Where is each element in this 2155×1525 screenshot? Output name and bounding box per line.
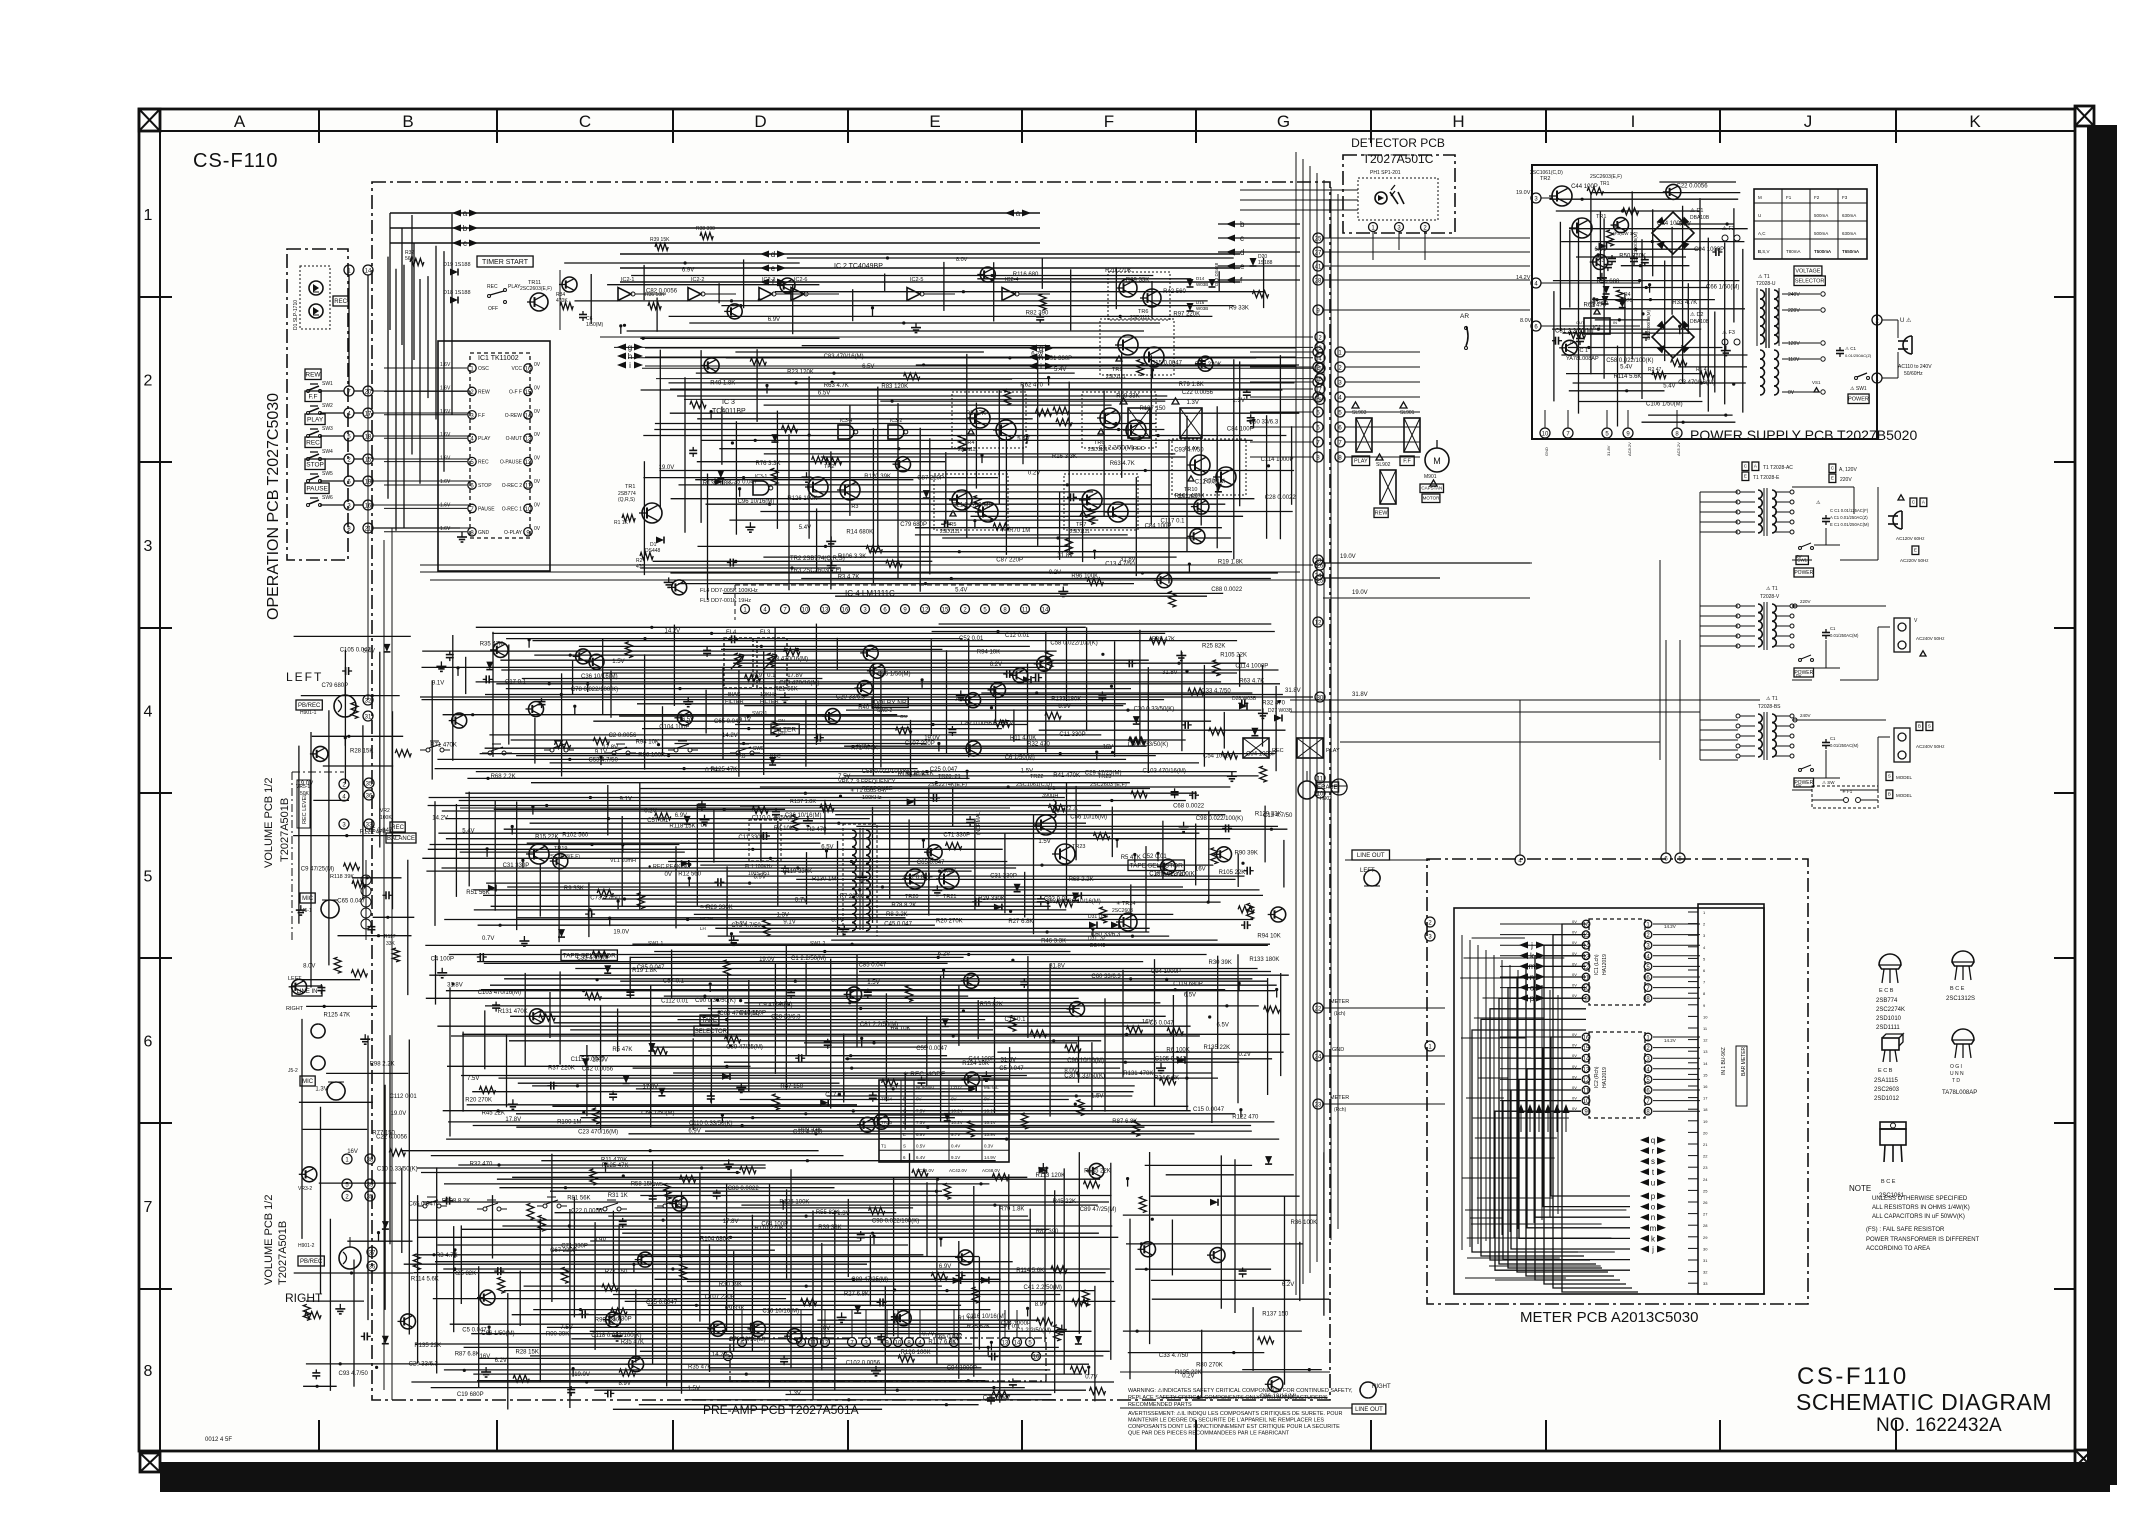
wire xyxy=(618,1225,620,1320)
svg-text:0V: 0V xyxy=(916,1097,922,1102)
svg-text:C65 0.047: C65 0.047 xyxy=(714,719,742,725)
wire xyxy=(694,913,1174,915)
wire xyxy=(677,395,1167,397)
svg-text:19: 19 xyxy=(1703,1119,1708,1124)
svg-text:19.0V: 19.0V xyxy=(659,465,675,471)
wire xyxy=(547,1326,1005,1328)
transistor TR6 pair xyxy=(1108,272,1170,320)
resistor R1 xyxy=(725,1036,741,1043)
switch SW5 xyxy=(307,480,310,483)
node xyxy=(1157,434,1160,437)
node xyxy=(703,995,706,998)
wire xyxy=(586,1045,588,1116)
wire xyxy=(453,1226,455,1332)
node xyxy=(568,758,571,761)
transformer T1 primary xyxy=(1760,290,1765,299)
wire xyxy=(320,458,344,460)
transistor TR10 xyxy=(863,645,878,660)
svg-text:0V: 0V xyxy=(665,872,672,878)
wire xyxy=(1150,355,1152,524)
wire xyxy=(1091,1042,1093,1110)
wire xyxy=(796,878,1235,880)
node xyxy=(1001,720,1004,723)
wire xyxy=(738,670,740,777)
svg-text:C44 100P: C44 100P xyxy=(1571,184,1598,190)
tap wire xyxy=(1782,391,1820,393)
svg-text:RIGHT: RIGHT xyxy=(285,1291,323,1305)
wire xyxy=(530,1355,1103,1357)
grid tick xyxy=(1545,109,1547,143)
wire xyxy=(1700,605,1738,607)
wire xyxy=(710,999,712,1104)
wire xyxy=(1606,410,1608,428)
svg-text:TAPE: TAPE xyxy=(702,1018,717,1024)
node xyxy=(850,860,853,863)
svg-text:H901-1: H901-1 xyxy=(300,710,317,716)
junction node xyxy=(782,1200,785,1203)
wire xyxy=(328,710,330,965)
svg-text:SW5: SW5 xyxy=(753,746,764,752)
node xyxy=(1208,1015,1211,1018)
svg-text:10: 10 xyxy=(1703,1014,1708,1019)
ic4 pin xyxy=(841,605,850,614)
svg-text:NO. 1622432A: NO. 1622432A xyxy=(1876,1415,2002,1436)
grid tick xyxy=(1021,109,1023,143)
inverter IC2-2 xyxy=(688,288,701,301)
detector pin 3 xyxy=(1395,223,1404,232)
wire xyxy=(462,1228,1050,1230)
svg-text:0V: 0V xyxy=(1572,983,1577,988)
power switch sw ac xyxy=(1799,547,1802,550)
wire xyxy=(697,461,945,463)
svg-text:6.2V: 6.2V xyxy=(1031,352,1043,358)
ic1 pin 12 xyxy=(524,457,532,465)
wire xyxy=(362,725,364,899)
node xyxy=(742,742,745,745)
svg-text:R29 330K: R29 330K xyxy=(978,896,1005,902)
svg-text:27: 27 xyxy=(1703,1212,1708,1217)
connector pin 17 xyxy=(363,408,373,418)
wire xyxy=(507,1293,509,1409)
node xyxy=(582,989,585,992)
svg-text:R118 39K: R118 39K xyxy=(330,874,354,880)
svg-text:4: 4 xyxy=(144,704,153,721)
resistor R106 xyxy=(351,702,358,718)
solenoid SL901 xyxy=(1404,418,1420,452)
connector pin 6 xyxy=(1335,422,1345,432)
node xyxy=(964,507,967,510)
svg-text:16.1V: 16.1V xyxy=(984,1108,996,1113)
wire xyxy=(449,954,1207,956)
svg-text:R25 82K: R25 82K xyxy=(967,1324,990,1330)
warn triangle xyxy=(1430,480,1437,486)
svg-text:R129 33K: R129 33K xyxy=(1255,812,1282,818)
svg-text:O-REW: O-REW xyxy=(505,413,523,419)
voltage wire 31.8V xyxy=(420,564,1313,566)
svg-text:(NORMAL): (NORMAL) xyxy=(976,810,982,835)
wire xyxy=(1250,396,1313,398)
ic4 pin xyxy=(761,605,770,614)
switch contact SW4-6 xyxy=(736,751,740,755)
resistor R52 xyxy=(1260,766,1267,782)
wire xyxy=(504,1290,1095,1292)
svg-text:C91 330P: C91 330P xyxy=(1046,356,1073,362)
wire xyxy=(869,551,1232,553)
wire xyxy=(684,377,686,533)
wire xyxy=(1250,456,1313,458)
wire xyxy=(629,957,631,997)
wire xyxy=(1250,366,1313,368)
ic1 pin 4 xyxy=(468,434,476,442)
node xyxy=(564,1186,567,1189)
svg-text:E C B: E C B xyxy=(1879,988,1894,994)
node xyxy=(1035,691,1038,694)
wire xyxy=(1825,640,1827,668)
junction node xyxy=(942,969,945,972)
svg-text:100K: 100K xyxy=(380,815,392,821)
warn triangle xyxy=(1352,402,1359,408)
resistor R55 xyxy=(561,1267,568,1283)
resistor R138 xyxy=(1021,1113,1028,1129)
ic1 pin 15 xyxy=(524,387,532,395)
svg-text:OPERATION PCB T2027C5030: OPERATION PCB T2027C5030 xyxy=(265,393,282,620)
node xyxy=(935,1190,938,1193)
svg-text:C33 4.7/50: C33 4.7/50 xyxy=(1159,1353,1189,1359)
ground xyxy=(364,1034,366,1039)
junction node xyxy=(1093,550,1096,553)
ground xyxy=(1180,651,1182,656)
svg-text:SW6: SW6 xyxy=(322,495,333,501)
wire xyxy=(776,293,807,295)
node xyxy=(805,1215,808,1218)
svg-text:18: 18 xyxy=(1703,1107,1708,1112)
node xyxy=(582,1111,585,1114)
wire xyxy=(524,973,526,1066)
wire xyxy=(1825,750,1827,778)
bus wire vertical xyxy=(1316,173,1318,1262)
svg-text:SW4: SW4 xyxy=(322,449,333,455)
wire xyxy=(431,680,433,779)
svg-text:B: B xyxy=(903,1097,906,1102)
wire xyxy=(640,567,841,569)
wire xyxy=(531,782,1130,784)
capacitor C81 xyxy=(1012,1378,1014,1382)
svg-text:R71 470K: R71 470K xyxy=(430,743,457,749)
switch contact SW6-5 xyxy=(663,1204,667,1208)
node xyxy=(607,817,610,820)
wire xyxy=(312,735,403,737)
junction node xyxy=(632,1263,635,1266)
svg-text:● REC PEAKING: ● REC PEAKING xyxy=(648,864,690,870)
svg-text:R94 10K: R94 10K xyxy=(636,740,659,746)
wire xyxy=(1094,1286,1096,1402)
wire xyxy=(930,640,932,737)
svg-text:DS448: DS448 xyxy=(645,548,661,554)
capacitor C88 xyxy=(880,1333,882,1337)
svg-text:R117: R117 xyxy=(384,934,396,940)
capacitor C22 xyxy=(972,901,976,903)
svg-text:C89 47/25(M): C89 47/25(M) xyxy=(851,1277,888,1283)
svg-text:C66 1/50(M): C66 1/50(M) xyxy=(1706,285,1739,291)
connector pin 1 ps xyxy=(1872,373,1882,383)
node xyxy=(1115,422,1118,425)
wire xyxy=(740,1099,1069,1101)
svg-text:R68 2.2K: R68 2.2K xyxy=(491,774,516,780)
wire xyxy=(516,1113,1235,1115)
svg-text:R120 39K: R120 39K xyxy=(864,474,891,480)
junction node xyxy=(621,843,624,846)
diode D4 xyxy=(942,1018,949,1026)
svg-text:1.3V: 1.3V xyxy=(789,1391,801,1397)
wire xyxy=(715,927,1149,929)
svg-text:R35 47K: R35 47K xyxy=(688,1365,711,1371)
grid tick xyxy=(139,792,172,794)
ground xyxy=(843,924,845,929)
resistor R38 xyxy=(700,233,713,240)
node xyxy=(945,1403,948,1406)
resistor R122 xyxy=(946,843,962,850)
wire xyxy=(532,1085,1135,1087)
resistor R122 xyxy=(1100,907,1107,923)
connector pin 41 xyxy=(1313,261,1323,271)
svg-text:E,S,V: E,S,V xyxy=(1758,249,1770,254)
led D1a xyxy=(309,281,323,295)
svg-text:SL903: SL903 xyxy=(1352,410,1367,416)
svg-text:PLAY: PLAY xyxy=(1326,748,1340,754)
svg-text:SW1-1: SW1-1 xyxy=(648,941,664,947)
wire xyxy=(676,901,1220,903)
grid tick xyxy=(847,109,849,143)
svg-text:C84 100P: C84 100P xyxy=(1227,427,1254,433)
node xyxy=(657,743,660,746)
svg-text:C3 470/16(M): C3 470/16(M) xyxy=(772,657,809,663)
resistor R39 xyxy=(1004,389,1011,405)
wire xyxy=(1283,840,1285,888)
svg-text:SELECTOR: SELECTOR xyxy=(1795,279,1825,285)
connector pin 6 xyxy=(1315,374,1325,384)
svg-text:0.7V: 0.7V xyxy=(705,768,717,774)
svg-text:C98 0.022/100(K): C98 0.022/100(K) xyxy=(1196,816,1243,822)
node xyxy=(596,978,599,981)
wire xyxy=(1211,1048,1213,1123)
wire xyxy=(384,461,467,463)
switch contact SW6-2 xyxy=(483,1207,487,1211)
svg-text:1.3V: 1.3V xyxy=(735,922,747,928)
node xyxy=(1052,1039,1055,1042)
node xyxy=(945,1289,948,1292)
node xyxy=(996,630,999,633)
wire xyxy=(827,1095,1132,1097)
svg-text:b: b xyxy=(463,224,468,233)
wire xyxy=(1700,625,1738,627)
transistor TR23 xyxy=(1271,907,1286,922)
transistor TR5 xyxy=(1198,356,1213,371)
junction node xyxy=(1239,1108,1242,1111)
wire xyxy=(893,1177,895,1336)
switch SW3 xyxy=(307,435,310,438)
wire xyxy=(1172,995,1174,1080)
svg-text:PH1 SP1-201: PH1 SP1-201 xyxy=(1370,170,1401,176)
svg-text:REC: REC xyxy=(1133,446,1145,452)
svg-text:15: 15 xyxy=(1583,1046,1590,1052)
node xyxy=(937,956,940,959)
bus stub e xyxy=(1218,265,1300,267)
svg-text:C25 0.047: C25 0.047 xyxy=(729,480,757,486)
node xyxy=(1185,1077,1188,1080)
ic4 pin xyxy=(861,605,870,614)
svg-text:0V: 0V xyxy=(1572,1032,1577,1037)
bus wire vertical xyxy=(1295,152,1297,1295)
wire xyxy=(872,428,874,584)
svg-text:VOLTAGE: VOLTAGE xyxy=(1795,269,1820,275)
svg-text:C66 1/50(M): C66 1/50(M) xyxy=(481,1331,514,1337)
node xyxy=(695,1304,698,1307)
resistor R134 xyxy=(772,1094,779,1110)
operation pcb boundary xyxy=(287,249,348,560)
svg-text:OSC: OSC xyxy=(478,366,489,372)
wire xyxy=(678,1019,986,1021)
wire xyxy=(708,1008,1080,1010)
wire xyxy=(700,864,1213,866)
svg-text:TR24: TR24 xyxy=(881,1097,893,1102)
capacitor C109 xyxy=(604,1392,608,1394)
svg-text:d: d xyxy=(771,250,775,259)
svg-text:R99 33K: R99 33K xyxy=(798,1127,821,1133)
svg-text:24: 24 xyxy=(1315,1055,1322,1061)
filter box xyxy=(771,724,799,735)
r137 wire xyxy=(460,807,1010,809)
connector pin 7 xyxy=(344,386,354,396)
svg-text:2SD1111: 2SD1111 xyxy=(1070,529,1090,535)
junction node xyxy=(980,454,983,457)
capacitor C55 xyxy=(990,1395,992,1399)
wire xyxy=(835,595,1207,597)
resistor R35 xyxy=(395,750,411,757)
wire xyxy=(666,1190,668,1386)
resistor R98 xyxy=(590,1169,597,1185)
capacitor C46 xyxy=(1067,496,1071,498)
wire xyxy=(437,758,1126,760)
wire xyxy=(1700,615,1738,617)
wire xyxy=(884,1286,886,1394)
wire xyxy=(644,654,646,769)
node xyxy=(688,863,691,866)
wire xyxy=(1139,630,1141,740)
svg-text:0V: 0V xyxy=(534,385,541,391)
svg-text:0.4V: 0.4V xyxy=(951,1144,960,1149)
wire xyxy=(1203,665,1205,767)
wire xyxy=(497,1178,1100,1180)
svg-text:5.4V: 5.4V xyxy=(955,587,967,593)
wire xyxy=(486,882,923,884)
bus wire f xyxy=(620,281,1240,283)
node xyxy=(1110,799,1113,802)
svg-text:GND: GND xyxy=(1332,1047,1344,1053)
wire xyxy=(389,1035,391,1244)
svg-text:7.5V: 7.5V xyxy=(916,1108,925,1113)
wire xyxy=(367,275,369,386)
svg-text:C85 0.047: C85 0.047 xyxy=(859,963,887,969)
svg-text:C22 0.0056: C22 0.0056 xyxy=(1182,390,1214,396)
svg-text:470K: 470K xyxy=(556,298,568,304)
node xyxy=(852,1278,855,1281)
wire xyxy=(1130,884,1132,928)
svg-text:C10 0.33/50(K): C10 0.33/50(K) xyxy=(377,1166,418,1172)
wire xyxy=(642,728,1002,730)
resistor R38 xyxy=(772,721,779,737)
wire xyxy=(392,711,394,909)
svg-text:A, 120V: A, 120V xyxy=(1839,467,1857,473)
node xyxy=(1066,483,1069,486)
wire vertical feed xyxy=(1699,492,1701,760)
bus wire e xyxy=(620,267,1240,269)
transistor TR3 xyxy=(1157,573,1172,588)
svg-text:TR2 2SB774(Q,R,S): TR2 2SB774(Q,R,S) xyxy=(790,556,845,562)
node xyxy=(1101,653,1104,656)
svg-text:31: 31 xyxy=(365,715,372,721)
diode D9 xyxy=(854,1305,861,1313)
svg-text:O G I: O G I xyxy=(1950,1064,1962,1070)
svg-text:13: 13 xyxy=(822,608,829,614)
ic1 pin 7 xyxy=(468,504,476,512)
node xyxy=(717,1011,720,1014)
svg-text:STOP: STOP xyxy=(478,483,492,489)
resistor R138 xyxy=(1087,578,1103,585)
capacitor C3 ps xyxy=(1611,255,1613,259)
bus arrow h xyxy=(617,353,626,360)
switch contact SW4-2 xyxy=(488,751,492,755)
resistor R64 xyxy=(1126,1026,1142,1033)
capacitor C6 xyxy=(582,311,584,315)
svg-text:14: 14 xyxy=(1583,1057,1590,1063)
corner mark bottom-left xyxy=(140,1453,160,1472)
svg-text:C31 330P: C31 330P xyxy=(990,873,1017,879)
svg-text:PB/REC: PB/REC xyxy=(300,1259,323,1265)
switch contact SW6-1 xyxy=(423,1204,427,1208)
svg-text:6.5V: 6.5V xyxy=(821,845,833,851)
connector pin 2 xyxy=(344,454,354,464)
node xyxy=(990,706,993,709)
connector pin 1 xyxy=(344,265,354,275)
node xyxy=(723,808,726,811)
connector pin 8 xyxy=(1315,394,1325,404)
node xyxy=(850,1067,853,1070)
svg-text:12: 12 xyxy=(822,1341,829,1347)
svg-text:j: j xyxy=(1530,941,1533,950)
play head box 2 xyxy=(1297,738,1323,758)
svg-text:14: 14 xyxy=(365,269,372,275)
transformer T2028-BS xyxy=(1758,714,1762,723)
wire xyxy=(1168,439,1170,583)
transistor TR15 xyxy=(750,1321,765,1336)
node xyxy=(569,654,572,657)
svg-text:R96 100K: R96 100K xyxy=(638,752,665,758)
wire xyxy=(460,851,685,853)
node xyxy=(751,1116,754,1119)
grid tick xyxy=(672,1420,674,1451)
connector pin 6 xyxy=(344,476,354,486)
wire xyxy=(847,1199,849,1277)
wire xyxy=(926,1016,928,1086)
wire xyxy=(344,650,346,784)
wire xyxy=(594,1222,596,1350)
svg-text:R3 4.7K: R3 4.7K xyxy=(436,1253,458,1259)
junction node xyxy=(377,1231,380,1234)
junction node xyxy=(608,917,611,920)
svg-text:1.5V: 1.5V xyxy=(1038,839,1050,845)
resistor R129 xyxy=(992,1391,1008,1398)
grid tick xyxy=(139,296,172,298)
